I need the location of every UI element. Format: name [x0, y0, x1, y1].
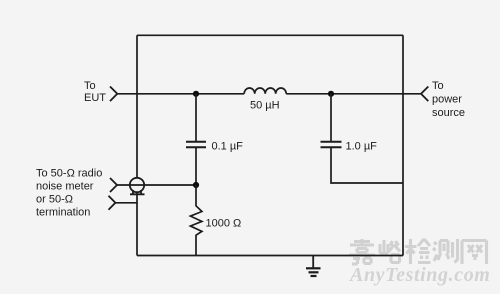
arrow lower termination	[109, 196, 116, 210]
svg-text:1.0 µF: 1.0 µF	[346, 141, 378, 153]
svg-text:0.1 µF: 0.1 µF	[212, 141, 244, 153]
svg-text:50 µH: 50 µH	[250, 100, 280, 112]
wire lower connector shell	[115, 202, 137, 204]
svg-text:To: To	[432, 80, 444, 92]
wire bottom edge	[137, 255, 403, 257]
svg-text:termination: termination	[36, 206, 90, 218]
峪	[380, 240, 400, 263]
svg-text:EUT: EUT	[84, 92, 106, 104]
node junction dot connector	[193, 182, 199, 188]
wire top edge	[137, 34, 403, 36]
svg-text:AnyTesting.com: AnyTesting.com	[348, 264, 490, 286]
inductor L 50 uH	[244, 88, 286, 94]
connector J1 circle	[130, 178, 144, 192]
node junction dot left	[193, 91, 199, 97]
arrow upper noise meter	[110, 178, 117, 192]
enclosure box wires	[137, 35, 403, 255]
svg-text:noise meter: noise meter	[36, 180, 94, 192]
嘉	[349, 239, 375, 264]
svg-text:source: source	[432, 107, 465, 119]
检	[405, 239, 431, 264]
svg-text:To 50-Ω radio: To 50-Ω radio	[36, 167, 102, 179]
wire right edge	[402, 35, 404, 255]
测	[433, 239, 458, 263]
connector J1 base	[130, 190, 145, 194]
网	[462, 241, 487, 265]
svg-text:1000 Ω: 1000 Ω	[206, 218, 242, 230]
watermark 嘉峪检测网	[349, 239, 487, 264]
ground	[306, 256, 321, 277]
wire left edge	[136, 35, 138, 255]
wire connector to node	[117, 184, 196, 186]
node junction dot right	[328, 91, 334, 97]
svg-text:power: power	[432, 94, 462, 106]
wire main line EUT to power	[117, 93, 421, 95]
svg-text:To: To	[84, 80, 96, 92]
resistor R1 1000 ohm	[190, 185, 202, 256]
svg-text:or 50-Ω: or 50-Ω	[36, 193, 73, 205]
capacitor C1 0.1 uF	[186, 94, 206, 183]
capacitor C2 1.0 uF	[321, 94, 404, 183]
arrow to EUT	[110, 87, 117, 102]
arrow to power source	[421, 87, 428, 102]
